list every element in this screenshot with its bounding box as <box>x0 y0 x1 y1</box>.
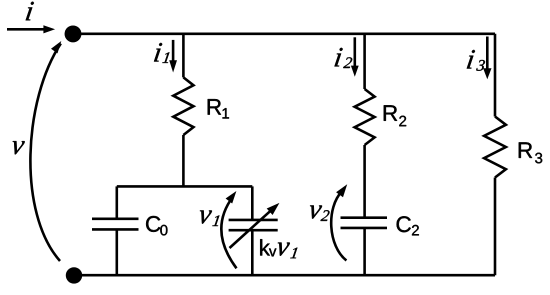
label C0 <box>146 216 167 235</box>
label i1 <box>154 43 169 63</box>
variable capacitor kv*v1 plates <box>229 220 278 230</box>
voltage arrow v1 (curved) <box>221 191 236 268</box>
wire R2 bottom lead <box>363 145 366 218</box>
resistor R1 <box>173 77 193 135</box>
label R1 <box>208 99 229 118</box>
capacitor C2 <box>341 218 388 228</box>
wire box left edge upper <box>116 186 119 218</box>
node top-left terminal <box>65 25 82 42</box>
voltage arrow v2 (curved) <box>331 184 347 260</box>
resistor R3 <box>484 117 506 178</box>
node bottom-left terminal <box>66 267 82 283</box>
voltage arrow v (curved) <box>30 41 61 261</box>
wire R2 branch top lead <box>363 34 366 89</box>
label i <box>26 2 34 21</box>
label v <box>13 141 25 154</box>
wire top horizontal <box>73 32 495 35</box>
capacitor C0 <box>92 219 139 230</box>
wire bottom horizontal <box>74 274 495 277</box>
current arrow i <box>7 25 55 33</box>
label R2 <box>384 105 406 126</box>
label v1 <box>200 210 219 226</box>
resistor R2 <box>355 89 375 145</box>
label i2 <box>335 48 353 68</box>
wire R3 bottom lead <box>494 178 497 276</box>
label C2 <box>397 216 419 235</box>
variable capacitor diagonal arrow <box>230 203 280 248</box>
wire box right edge upper <box>251 186 254 220</box>
label v2 <box>310 205 330 220</box>
label R3 <box>519 142 542 163</box>
wire R3 branch top lead <box>494 34 497 117</box>
wire C2 bottom lead <box>363 228 366 275</box>
current arrow i3 <box>483 37 491 80</box>
label kv v1 <box>260 239 297 258</box>
wire box right edge lower <box>251 230 254 275</box>
wire box top edge <box>117 185 253 188</box>
wire box left edge lower <box>116 229 119 275</box>
wire R1 branch top lead <box>182 34 185 78</box>
current arrow i2 <box>351 37 359 77</box>
current arrow i1 <box>169 40 177 73</box>
wire R1 bottom lead <box>182 135 185 186</box>
label i3 <box>467 50 485 71</box>
